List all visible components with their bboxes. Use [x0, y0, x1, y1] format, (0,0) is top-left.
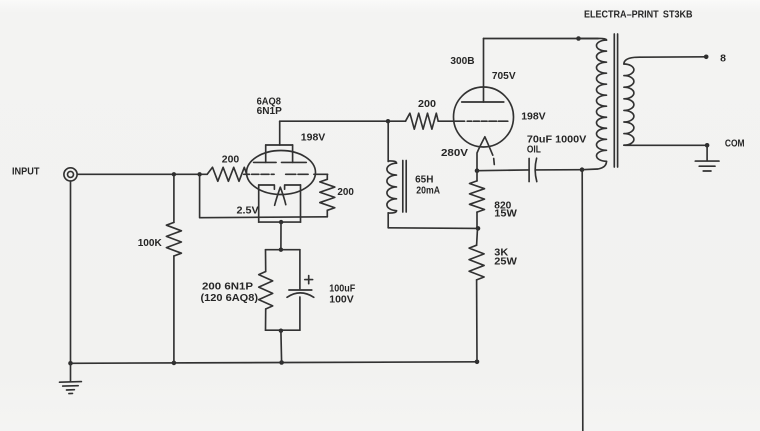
svg-text:INPUT: INPUT: [12, 167, 40, 178]
T1 primary winding: [579, 38, 607, 169]
node rail at 3K: [475, 360, 480, 365]
node filament junction: [475, 168, 480, 173]
T1 secondary winding: [624, 57, 640, 145]
wire grid feed down and bias rail: [200, 174, 328, 217]
RC network loop: [266, 250, 300, 331]
resistor R cathode 200(120): [259, 272, 273, 309]
svg-text:200: 200: [222, 154, 240, 166]
svg-text:200 6N1P: 200 6N1P: [202, 281, 253, 293]
svg-text:198V: 198V: [521, 110, 546, 122]
svg-text:(120 6AQ8): (120 6AQ8): [201, 292, 259, 304]
V2 plate: [462, 39, 504, 103]
svg-text:280V: 280V: [441, 147, 468, 159]
node cathode box bottom: [279, 220, 283, 224]
svg-text:705V: 705V: [492, 70, 516, 82]
node rail at 100K: [172, 361, 177, 366]
triode V1 envelope 6AQ8/6N1P: [247, 151, 316, 195]
svg-text:20mA: 20mA: [416, 185, 440, 197]
resistor R 820 15W: [470, 171, 485, 229]
node rail at cathode network: [279, 360, 284, 365]
svg-text:OIL: OIL: [527, 144, 541, 156]
V2 filament: [477, 137, 494, 171]
plus sign: [305, 276, 313, 284]
V2 grid dashed: [467, 120, 508, 122]
wire filament junction to capacitor: [477, 169, 529, 172]
svg-text:15W: 15W: [494, 207, 517, 219]
choke L1 65H 20mA: [387, 121, 406, 228]
node terminal 8: [704, 55, 709, 60]
wire cathode box to RC network: [280, 222, 282, 250]
svg-text:8: 8: [720, 53, 726, 65]
resistor R 3K 25W: [469, 228, 484, 361]
svg-text:198V: 198V: [301, 131, 326, 143]
wire choke bottom to 820/3K junction: [388, 227, 478, 230]
svg-text:6N1P: 6N1P: [257, 105, 282, 117]
resistor R 200 grid to rail: [320, 174, 335, 217]
wire junction to resistor: [388, 120, 406, 122]
triode V2 300B envelope: [454, 87, 514, 147]
wire input to grid junctions: [77, 173, 207, 175]
V1 grid dashed line: [244, 173, 328, 175]
input jack J1: [64, 168, 77, 181]
wire resistor to 300B grid: [438, 120, 464, 122]
wire bottom ground rail: [71, 362, 478, 364]
svg-text:100V: 100V: [329, 293, 353, 305]
svg-text:25W: 25W: [494, 256, 517, 268]
node grid feed junction: [197, 172, 201, 176]
node rail at input: [68, 361, 73, 366]
node RC top: [279, 248, 283, 252]
svg-text:100K: 100K: [138, 237, 162, 249]
capacitor C 100uF plates: [287, 290, 314, 297]
V1 plate structure: [254, 121, 307, 162]
wire plate top rail: [484, 38, 599, 40]
svg-text:2.5V: 2.5V: [237, 204, 259, 216]
ground symbol at COM: [695, 145, 719, 171]
node terminal COM: [705, 143, 710, 148]
node primary top: [576, 36, 581, 41]
resistor R 200 grid stopper V1: [207, 167, 247, 181]
node RC bottom: [279, 329, 283, 333]
node plate/choke junction: [386, 119, 390, 123]
node primary bottom: [580, 167, 585, 172]
ground symbol left: [60, 363, 82, 393]
node 820/3K junction: [476, 226, 481, 231]
node input/100K junction: [172, 172, 176, 176]
capacitor C 70uF 1000V OIL: [529, 158, 537, 181]
svg-text:300B: 300B: [450, 55, 475, 67]
T1 core: [614, 34, 617, 167]
wire input jack down to ground rail: [70, 181, 72, 363]
resistor R 200 to 300B grid: [406, 113, 439, 129]
wire V1 plate to junction: [280, 120, 388, 122]
wire secondary bottom to COM terminal: [634, 144, 707, 146]
resistor 100K: [166, 177, 181, 363]
wire RC bottom to rail: [280, 331, 283, 363]
wire secondary top to 8 terminal: [640, 56, 706, 58]
svg-text:ELECTRA–PRINT ST3KB: ELECTRA–PRINT ST3KB: [584, 9, 693, 21]
svg-text:COM: COM: [725, 138, 745, 150]
wire B+ return down: [581, 170, 584, 431]
wire capacitor to primary bottom: [536, 169, 583, 171]
svg-text:200: 200: [418, 98, 436, 110]
V1 cathode box with heater: [259, 185, 301, 222]
svg-text:200: 200: [337, 186, 354, 198]
